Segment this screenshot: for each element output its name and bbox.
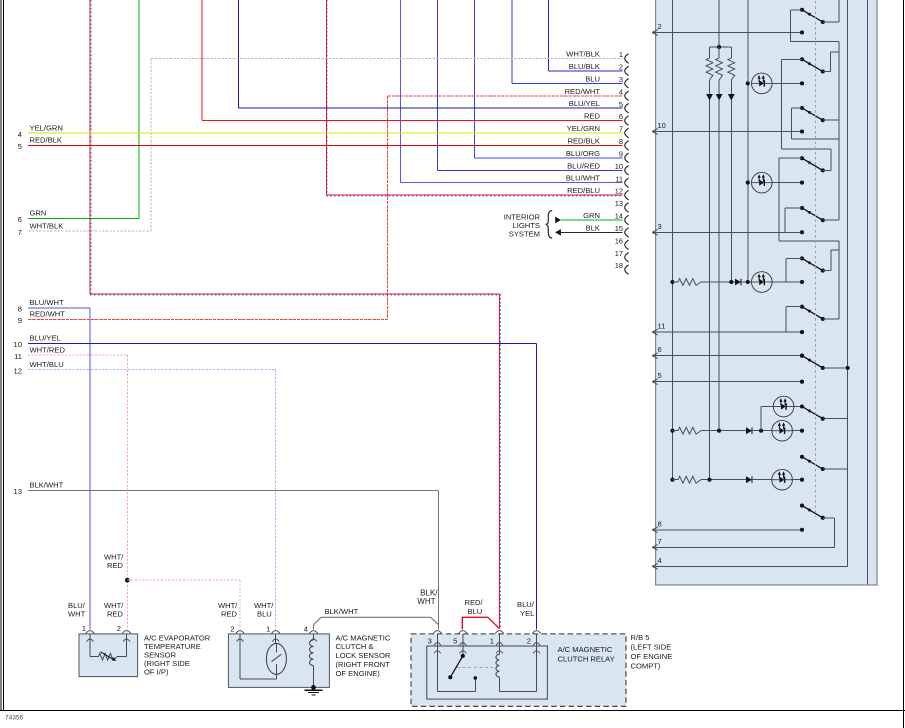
sensor internals	[89, 634, 91, 657]
svg-text:10: 10	[658, 121, 666, 130]
svg-text:12: 12	[615, 187, 623, 196]
svg-text:BLU: BLU	[468, 607, 483, 616]
resistor bank top bar	[710, 46, 732, 48]
switch S1	[800, 8, 804, 12]
wire BLU	[511, 0, 513, 83]
wire	[730, 100, 732, 282]
wire BLK/WHT link	[314, 617, 439, 629]
wire GRN	[28, 217, 139, 219]
svg-text:8: 8	[619, 137, 623, 146]
wire RED/BLU	[326, 194, 622, 196]
lock sensor element	[266, 643, 286, 674]
relay switch	[436, 646, 438, 692]
wire BLU/WHT	[399, 0, 401, 183]
svg-text:WHT/BLU: WHT/BLU	[30, 360, 64, 369]
svg-text:RED/WHT: RED/WHT	[565, 87, 601, 96]
lock sensor internals	[239, 634, 241, 679]
node pin 11 row	[652, 331, 802, 333]
svg-text:CLUTCH &: CLUTCH &	[336, 642, 374, 651]
switch S5	[800, 206, 804, 210]
switch S11	[800, 504, 804, 508]
svg-text:BLK/WHT: BLK/WHT	[30, 481, 64, 490]
svg-text:2: 2	[658, 22, 662, 31]
svg-text:5: 5	[619, 100, 623, 109]
switch S3	[800, 106, 804, 110]
thermistor	[90, 656, 99, 658]
svg-text:BLK: BLK	[586, 223, 600, 232]
wire RED	[201, 0, 203, 121]
switch bank link wires	[838, 0, 840, 22]
resistor vertical 2	[718, 47, 720, 58]
svg-text:8: 8	[18, 305, 22, 314]
svg-text:11: 11	[14, 352, 22, 361]
wire BLU/YEL	[238, 0, 240, 108]
wire RED/BLU	[89, 0, 91, 294]
svg-text:6: 6	[658, 345, 662, 354]
switch S6	[800, 256, 804, 260]
wire BLU	[512, 82, 623, 84]
node pin 6 row	[652, 355, 802, 357]
svg-text:4: 4	[658, 556, 662, 565]
svg-text:RED: RED	[221, 610, 238, 619]
svg-text:1: 1	[266, 624, 270, 633]
svg-text:BLU/YEL: BLU/YEL	[30, 334, 61, 343]
svg-text:RED/BLU: RED/BLU	[567, 186, 600, 195]
svg-text:1: 1	[490, 636, 494, 645]
svg-text:1: 1	[82, 624, 86, 633]
wire WHT/BLK	[28, 230, 151, 232]
svg-text:WHT: WHT	[417, 597, 435, 606]
wire BLU/WHT	[89, 308, 91, 630]
wire RED/WHT	[28, 318, 388, 320]
svg-text:BLK/WHT: BLK/WHT	[325, 607, 359, 616]
svg-text:WHT/BLK: WHT/BLK	[30, 221, 64, 230]
svg-text:3: 3	[658, 222, 662, 231]
svg-text:A/C MAGNETIC: A/C MAGNETIC	[558, 645, 613, 654]
svg-text:6: 6	[18, 215, 22, 224]
wire WHT/RED branch	[127, 579, 240, 581]
resistor/diode/LED row A	[670, 280, 674, 284]
wire BLU/WHT	[400, 182, 622, 184]
svg-text:RED/: RED/	[465, 598, 484, 607]
R/B 5 dashed box	[411, 634, 626, 706]
wire BLU/YEL	[239, 107, 623, 109]
switch S8	[800, 354, 804, 358]
page border frame	[0, 0, 2, 711]
svg-text:5: 5	[18, 142, 22, 151]
pin 4	[309, 631, 317, 634]
wire	[709, 100, 711, 480]
svg-text:74356: 74356	[5, 715, 23, 722]
svg-text:1: 1	[619, 50, 623, 59]
svg-text:15: 15	[615, 224, 623, 233]
mechanical link	[457, 666, 497, 668]
svg-text:7: 7	[658, 537, 662, 546]
wire RED/WHT	[388, 95, 623, 97]
relay coil	[499, 646, 501, 654]
svg-text:18: 18	[615, 261, 623, 270]
bus wire vertical 2	[718, 0, 720, 56]
svg-text:2: 2	[527, 636, 531, 645]
resistor vertical 3	[730, 47, 732, 58]
svg-text:2: 2	[619, 63, 623, 72]
svg-text:RED/BLK: RED/BLK	[568, 136, 601, 145]
svg-text:8: 8	[658, 519, 662, 528]
wire	[718, 100, 720, 431]
wire BLU/BLK	[547, 0, 549, 71]
A/C magnetic clutch and lock sensor box	[228, 634, 329, 688]
diode vertical 1	[706, 94, 713, 101]
diode vertical 2	[716, 94, 723, 101]
wire BLU/YEL	[536, 343, 538, 629]
node pin 4 row	[652, 565, 848, 567]
svg-text:LOCK SENSOR: LOCK SENSOR	[336, 651, 391, 660]
svg-text:9: 9	[18, 316, 22, 325]
svg-text:14: 14	[615, 212, 623, 221]
svg-text:6: 6	[619, 112, 623, 121]
A/C magnetic clutch relay inner box	[427, 646, 548, 699]
svg-text:BLU/WHT: BLU/WHT	[30, 298, 65, 307]
svg-text:4: 4	[18, 130, 22, 139]
svg-text:7: 7	[619, 125, 623, 134]
node WHT/RED junction	[125, 578, 130, 583]
svg-text:BLU/YEL: BLU/YEL	[569, 99, 600, 108]
svg-text:CLUTCH RELAY: CLUTCH RELAY	[558, 655, 615, 664]
svg-text:5: 5	[658, 371, 662, 380]
pin 1	[86, 631, 94, 634]
svg-text:A/C MAGNETIC: A/C MAGNETIC	[336, 633, 391, 642]
switch S2	[800, 57, 804, 61]
switch S9	[800, 404, 804, 408]
svg-text:SYSTEM: SYSTEM	[509, 230, 540, 239]
wire WHT/BLK	[150, 59, 152, 232]
LED D1	[746, 81, 750, 85]
bus wire vertical 1	[672, 0, 674, 480]
svg-text:OF ENGINE): OF ENGINE)	[336, 669, 381, 678]
ground	[311, 685, 316, 690]
wire BLU/ORG	[473, 0, 475, 158]
wire RED/WHT	[387, 96, 389, 320]
svg-text:5: 5	[453, 636, 457, 645]
svg-text:BLU/ORG: BLU/ORG	[566, 149, 600, 158]
wire BLK/WHT	[438, 490, 440, 629]
node pin 2 row	[652, 32, 802, 34]
svg-text:GRN: GRN	[30, 209, 47, 218]
svg-text:16: 16	[615, 236, 623, 245]
A/C control assembly box	[656, 0, 877, 585]
wire YEL/GRN	[28, 132, 623, 134]
wire RED/BLU jog	[462, 617, 499, 629]
pin 2	[236, 631, 244, 634]
svg-text:RED/WHT: RED/WHT	[30, 310, 66, 319]
svg-text:COMPT): COMPT)	[631, 662, 661, 671]
wire RED/BLU	[90, 293, 500, 295]
wire BLU/WHT	[28, 307, 90, 309]
svg-text:10: 10	[615, 162, 623, 171]
svg-text:17: 17	[615, 249, 623, 258]
svg-text:3: 3	[619, 75, 623, 84]
wire RED/BLU	[499, 294, 501, 629]
pin 1	[272, 631, 280, 634]
wire BLU/YEL	[28, 342, 537, 344]
wire BLU/RED	[437, 169, 622, 171]
svg-text:12: 12	[14, 367, 22, 376]
bus wire vertical 3	[747, 0, 749, 282]
svg-text:BLU: BLU	[585, 74, 600, 83]
svg-text:BLU: BLU	[257, 610, 272, 619]
svg-text:4: 4	[304, 624, 308, 633]
wire WHT/BLU	[28, 369, 276, 371]
coil	[313, 634, 315, 640]
svg-text:BLU/RED: BLU/RED	[567, 161, 600, 170]
svg-text:13: 13	[615, 199, 623, 208]
svg-text:7: 7	[18, 228, 22, 237]
svg-text:(LEFT SIDE: (LEFT SIDE	[631, 643, 672, 652]
svg-text:2: 2	[117, 624, 121, 633]
svg-text:YEL: YEL	[520, 609, 534, 618]
wire BLU/RED	[436, 0, 438, 170]
svg-text:BLU/WHT: BLU/WHT	[566, 174, 601, 183]
switch S7	[800, 305, 804, 309]
LED D3	[773, 396, 794, 417]
A/C evaporator temperature sensor box	[79, 634, 138, 677]
node pin 10 row	[652, 131, 802, 133]
wire WHT/RED	[28, 354, 127, 356]
wire BLU/BLK	[548, 70, 622, 72]
switch S10	[800, 455, 804, 459]
resistor/diode/LED row B	[670, 429, 674, 433]
node pin 5 row	[652, 381, 802, 383]
pin 5	[459, 631, 467, 634]
wire RED/BLU	[325, 0, 327, 195]
svg-text:R/B 5: R/B 5	[631, 633, 650, 642]
LED D2	[746, 181, 750, 185]
svg-text:10: 10	[14, 340, 22, 349]
svg-text:RED: RED	[584, 112, 601, 121]
switch S4	[800, 156, 804, 160]
svg-text:WHT: WHT	[68, 610, 86, 619]
svg-text:GRN: GRN	[583, 211, 600, 220]
wire RED	[202, 120, 623, 122]
node pin 3 row	[652, 231, 802, 233]
wire BLU/ORG	[474, 157, 622, 159]
arrow in BLK	[555, 229, 561, 236]
diode vertical 3	[728, 94, 735, 101]
wire GRN	[138, 0, 140, 218]
svg-text:OF ENGINE: OF ENGINE	[631, 652, 673, 661]
brace	[546, 211, 553, 238]
node pin 7 row	[652, 546, 834, 548]
resistor vertical 1	[709, 47, 711, 58]
svg-text:OF I/P): OF I/P)	[144, 668, 169, 677]
pin 3	[433, 631, 441, 634]
svg-text:BLU/BLK: BLU/BLK	[569, 62, 600, 71]
svg-text:4: 4	[619, 87, 623, 96]
svg-text:11: 11	[658, 322, 666, 331]
pin 2	[122, 631, 130, 634]
wire BLK/WHT	[28, 489, 439, 491]
svg-text:2: 2	[230, 624, 234, 633]
svg-text:RED: RED	[107, 610, 124, 619]
mechanical link dashed	[814, 1, 816, 517]
svg-text:9: 9	[619, 149, 623, 158]
svg-text:(RIGHT FRONT: (RIGHT FRONT	[336, 660, 391, 669]
svg-text:WHT/RED: WHT/RED	[30, 346, 66, 355]
svg-text:YEL/GRN: YEL/GRN	[567, 124, 600, 133]
wire RED/BLK	[28, 144, 623, 146]
arrow out GRN	[555, 217, 561, 224]
wire WHT/RED	[126, 355, 128, 629]
svg-text:RED: RED	[107, 561, 124, 570]
svg-text:BLU/: BLU/	[517, 600, 535, 609]
svg-text:WHT/BLK: WHT/BLK	[566, 50, 600, 59]
pin 1	[495, 631, 503, 634]
wire WHT/BLK	[151, 58, 622, 60]
svg-text:13: 13	[14, 487, 22, 496]
svg-text:RED/BLK: RED/BLK	[30, 136, 63, 145]
pin 2	[532, 631, 540, 634]
svg-text:3: 3	[428, 636, 432, 645]
resistor/diode/LED row C	[670, 478, 674, 482]
svg-text:YEL/GRN: YEL/GRN	[30, 123, 63, 132]
wire WHT/BLU	[275, 370, 277, 630]
svg-text:11: 11	[615, 174, 623, 183]
node pin 8 row	[652, 529, 802, 531]
